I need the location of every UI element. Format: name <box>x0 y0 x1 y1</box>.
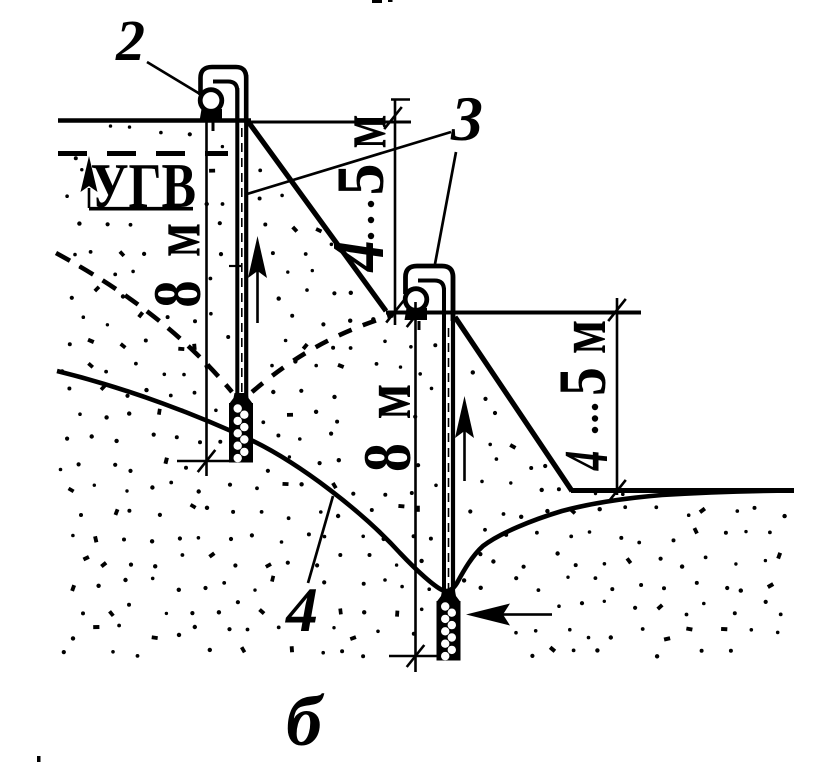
dashed drawdown curve stage 1 left <box>56 253 232 392</box>
wellpoint 2 tube right wall <box>451 275 455 601</box>
ground surface level 1 <box>58 118 251 123</box>
svg-text:8: 8 <box>350 443 425 472</box>
svg-text:5: 5 <box>545 367 620 396</box>
svg-text:м: м <box>545 320 620 354</box>
svg-text:8: 8 <box>140 280 215 307</box>
dimension line 8 m (well 1) <box>198 120 216 476</box>
svg-text:м: м <box>351 384 426 420</box>
wellpoint 1 tube right wall <box>244 75 248 400</box>
pump 2 body circle <box>405 289 427 311</box>
pump 1 body circle <box>200 90 222 112</box>
wellpoint 1 tube left wall <box>235 88 239 400</box>
dashed drawdown curve stage 1 right <box>252 315 393 392</box>
excavation slope 2 <box>455 317 572 491</box>
excavation slope 1 <box>247 120 386 311</box>
wellpoint 2 tube left wall <box>442 288 446 601</box>
water table arrow <box>81 156 98 208</box>
flow arrow in well 1 <box>248 236 267 323</box>
wellpoint 1 inner riser dashed <box>241 128 243 396</box>
dimension line 8 m (well 2) <box>407 302 425 672</box>
svg-text:4: 4 <box>285 574 318 645</box>
pump 1 pipe bend outer <box>201 67 247 122</box>
pump 1 base fill <box>200 109 223 121</box>
depression curve 4 (main water table) <box>57 371 793 591</box>
svg-text:м: м <box>139 223 214 257</box>
svg-text:3: 3 <box>450 83 483 154</box>
svg-text:2: 2 <box>115 8 145 73</box>
pump 2 pipe bend inner <box>418 281 444 322</box>
leader 3 to well 1 <box>247 132 451 194</box>
dimension line 4..5 m (upper) <box>384 99 410 325</box>
pump 2 base fill <box>405 308 428 320</box>
bottom-left stray mark <box>37 756 41 762</box>
wellpoint 2 inner riser dashed <box>448 328 450 597</box>
svg-text:б: б <box>286 681 325 761</box>
УГВ underline <box>89 207 193 211</box>
tube 1 coupling tick <box>229 265 241 267</box>
pump 2 pipe bend outer <box>406 266 454 321</box>
surface extension line to dimension <box>251 121 411 124</box>
filter 2 bottom tick line <box>389 655 438 658</box>
soil stipple dots <box>59 124 787 658</box>
leader for label 2 <box>147 62 200 94</box>
svg-text:м: м <box>325 114 400 148</box>
pump 1 pipe bend inner <box>213 82 237 123</box>
svg-text:4: 4 <box>553 451 621 471</box>
filter 1 bottom tick line <box>177 460 231 463</box>
excavation bottom level line <box>571 488 794 493</box>
leader 3 to pump 2 <box>435 152 456 264</box>
bench level line <box>386 311 641 315</box>
wellpoint filter 2 <box>437 591 461 661</box>
top edge artifact marks <box>372 0 393 3</box>
dimension line 4..5 m (lower) <box>608 298 626 502</box>
wellpoint filter 1 <box>229 393 253 463</box>
pump 2 suction stub <box>418 321 421 330</box>
pump 1 suction stub <box>212 122 215 131</box>
svg-text:4: 4 <box>317 240 399 273</box>
leader for label 4 <box>308 496 333 583</box>
svg-text:УГВ: УГВ <box>91 150 197 221</box>
groundwater table dashed line <box>58 151 228 156</box>
inflow arrow at filter 2 <box>466 604 552 626</box>
flow arrow in well 2 <box>455 396 474 481</box>
